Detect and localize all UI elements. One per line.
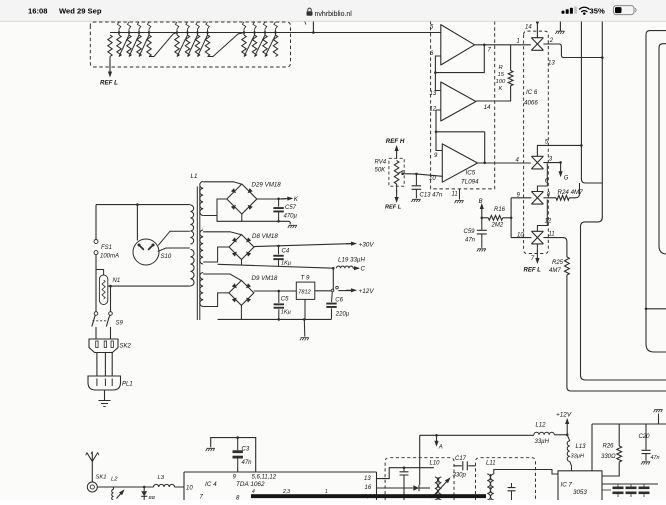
svg-text:+12V: +12V	[359, 288, 375, 295]
svg-text:C20: C20	[639, 434, 651, 440]
svg-text:33µH: 33µH	[571, 454, 585, 460]
svg-text:D8 VM18: D8 VM18	[252, 233, 278, 240]
svg-text:IC 4: IC 4	[205, 481, 217, 488]
svg-text:33µH: 33µH	[535, 439, 550, 445]
svg-text:R16: R16	[494, 207, 506, 213]
svg-text:FS1: FS1	[101, 245, 112, 251]
svg-text:2: 2	[549, 38, 554, 44]
svg-text:IC5: IC5	[466, 170, 476, 177]
svg-text:R25: R25	[552, 260, 564, 266]
svg-text:3053: 3053	[573, 489, 587, 496]
svg-text:1: 1	[325, 489, 328, 495]
svg-text:S9: S9	[116, 321, 124, 327]
svg-text:L19 33µH: L19 33µH	[338, 257, 365, 264]
svg-text:T 9: T 9	[301, 274, 310, 281]
svg-text:10,14: 10,14	[361, 494, 375, 500]
svg-text:15: 15	[498, 72, 505, 78]
svg-text:PL1: PL1	[122, 382, 133, 388]
svg-text:L11: L11	[486, 461, 496, 467]
svg-text:14: 14	[525, 25, 532, 31]
svg-text:220µ: 220µ	[335, 311, 350, 317]
svg-text:C6: C6	[335, 297, 343, 303]
svg-text:47n: 47n	[465, 238, 476, 244]
svg-text:C59: C59	[464, 229, 476, 235]
svg-text:11: 11	[452, 192, 458, 198]
svg-text:REF L: REF L	[385, 205, 402, 211]
svg-text:G: G	[564, 176, 569, 182]
svg-text:4066: 4066	[524, 100, 538, 107]
svg-text:L3: L3	[158, 475, 165, 481]
svg-text:C4: C4	[282, 248, 290, 254]
svg-text:nvhrbiblio.nl: nvhrbiblio.nl	[315, 11, 353, 18]
svg-text:TDA 1062: TDA 1062	[236, 481, 265, 488]
svg-text:C5: C5	[281, 297, 289, 303]
svg-text:N1: N1	[113, 278, 121, 284]
svg-text:L13: L13	[576, 444, 587, 450]
svg-text:12: 12	[430, 107, 437, 113]
svg-text:A: A	[438, 445, 443, 451]
svg-text:R24 4M7: R24 4M7	[558, 189, 584, 196]
svg-text:L2: L2	[111, 477, 118, 483]
svg-text:Wed 29 Sep: Wed 29 Sep	[59, 7, 102, 16]
svg-text:TL094: TL094	[461, 179, 479, 186]
svg-text:REF L: REF L	[100, 80, 118, 87]
svg-text:10: 10	[186, 486, 193, 492]
svg-text:4M7: 4M7	[549, 268, 561, 274]
svg-text:330p: 330p	[453, 473, 467, 479]
svg-text:REF L: REF L	[524, 268, 542, 274]
svg-text:IC 7: IC 7	[561, 482, 573, 489]
svg-text:D9 VM18: D9 VM18	[252, 275, 278, 282]
svg-text:470µ: 470µ	[284, 214, 298, 220]
svg-text:C13 47n: C13 47n	[420, 193, 443, 199]
svg-text:50K: 50K	[375, 168, 387, 174]
svg-text:13: 13	[364, 476, 371, 482]
svg-text:47n: 47n	[651, 455, 660, 461]
svg-text:10: 10	[517, 233, 524, 239]
svg-text:IC 6: IC 6	[526, 89, 538, 96]
svg-text:RV4: RV4	[375, 160, 387, 166]
svg-text:SK2: SK2	[120, 344, 132, 350]
svg-text:100: 100	[496, 79, 506, 85]
svg-text:14: 14	[484, 105, 491, 111]
svg-text:47n: 47n	[242, 460, 253, 466]
svg-text:100mA: 100mA	[100, 254, 119, 260]
svg-text:16: 16	[365, 485, 372, 491]
svg-text:C17: C17	[455, 456, 467, 462]
svg-text:C57: C57	[285, 205, 297, 211]
svg-text:2,3: 2,3	[282, 489, 290, 495]
svg-text:13: 13	[430, 91, 437, 97]
svg-text:D29 VM18: D29 VM18	[252, 182, 282, 189]
svg-text:11: 11	[549, 232, 555, 238]
svg-text:L12: L12	[536, 423, 547, 429]
svg-text:REF H: REF H	[386, 138, 405, 145]
svg-text:12: 12	[545, 219, 552, 225]
svg-text:1Kµ: 1Kµ	[281, 310, 291, 316]
svg-text:L10: L10	[430, 461, 441, 467]
svg-text:S10: S10	[161, 254, 172, 260]
svg-text:+30V: +30V	[359, 241, 375, 248]
svg-text:C3: C3	[242, 447, 250, 453]
svg-text:+12V: +12V	[556, 412, 572, 419]
svg-text:35%: 35%	[590, 6, 605, 15]
svg-text:2M2: 2M2	[491, 223, 504, 229]
svg-text:L1: L1	[191, 173, 198, 180]
svg-text:1: 1	[517, 39, 520, 45]
svg-text:7812: 7812	[298, 290, 311, 296]
svg-text:10: 10	[429, 176, 436, 182]
svg-text:SK1: SK1	[96, 475, 107, 481]
svg-text:B: B	[479, 198, 483, 205]
svg-text:16:08: 16:08	[28, 7, 47, 16]
svg-text:BB: BB	[149, 495, 156, 500]
svg-text:C: C	[361, 266, 366, 273]
svg-text:1Kµ: 1Kµ	[281, 260, 291, 266]
svg-text:330Ω: 330Ω	[601, 454, 616, 460]
svg-text:13: 13	[548, 61, 555, 67]
svg-text:5,6,11,12: 5,6,11,12	[252, 475, 277, 481]
svg-text:4: 4	[252, 489, 255, 495]
svg-text:R26: R26	[603, 444, 615, 450]
